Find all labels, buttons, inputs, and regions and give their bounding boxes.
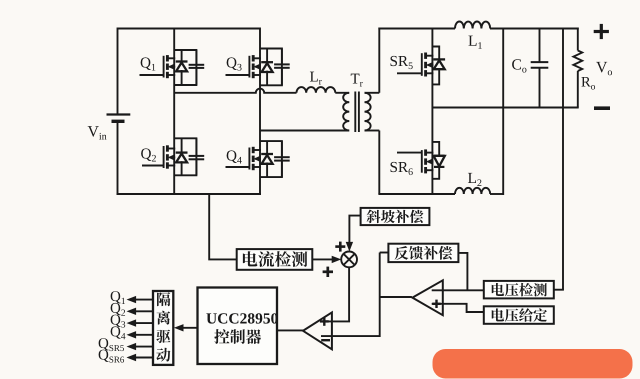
block: voltage reference box bbox=[484, 306, 554, 324]
label plus above summer bbox=[335, 245, 345, 248]
wire: fb comp left link bbox=[380, 252, 389, 254]
wire: sense vertical bbox=[562, 28, 564, 290]
block: UCC28950 box bbox=[198, 288, 278, 365]
wire: SR5 diode loop bbox=[432, 47, 439, 85]
diode D6 (pointing down) bbox=[434, 155, 445, 157]
wire: voltage ref to error amp plus bbox=[432, 304, 484, 312]
label Q2 bbox=[141, 148, 151, 161]
capacitor Co bbox=[539, 28, 541, 63]
wire: voltage det to error amp minus bbox=[432, 289, 484, 291]
label 电流检测 bbox=[243, 251, 257, 266]
wire: L2 right vertical bbox=[502, 28, 504, 196]
diode D4 bbox=[261, 153, 273, 155]
wire: SR6 diode loop bbox=[432, 142, 439, 179]
watermark bar bbox=[433, 349, 633, 379]
label 电压检测 bbox=[492, 283, 504, 296]
label 电压给定 bbox=[492, 308, 504, 321]
wire: Q3 snubber loop bbox=[260, 49, 282, 86]
diode D2 bbox=[176, 151, 188, 153]
wire: drive arrow 3 bbox=[134, 322, 153, 324]
block: feedback compensation box bbox=[388, 244, 458, 262]
label Co bbox=[512, 59, 521, 69]
capacitor C3 bbox=[274, 49, 290, 86]
label L2 bbox=[468, 173, 476, 183]
label L1 bbox=[468, 36, 476, 46]
label Vin bbox=[88, 126, 99, 137]
diode D5 bbox=[433, 58, 445, 60]
wire: leg A (Q1/Q2) bbox=[173, 28, 175, 196]
inductor L2 bbox=[455, 188, 490, 194]
wire: input top rail bbox=[118, 28, 261, 30]
label UCC28950 bbox=[206, 313, 216, 323]
summing junction bbox=[341, 252, 357, 268]
wire: input left rail upper bbox=[117, 28, 119, 114]
wire: secondary bottom rail bbox=[378, 193, 455, 195]
label SR5 bbox=[391, 56, 397, 66]
wire: bridge mid line with crossover hop bbox=[174, 89, 296, 93]
transistor Q2 bbox=[166, 145, 169, 151]
label plus bbox=[594, 30, 609, 33]
label Tr bbox=[351, 74, 360, 84]
transistor Q4 bbox=[252, 147, 255, 153]
battery Vin bbox=[107, 113, 131, 115]
transistor Q3 bbox=[252, 55, 255, 61]
wire: SR leg bbox=[431, 28, 433, 196]
block: current detection box bbox=[237, 249, 313, 270]
wire: comparator output to UCC bbox=[277, 329, 303, 331]
wire: slope comp to summer with arrow bbox=[349, 216, 360, 248]
wire: leg B (Q3/Q4) bbox=[259, 28, 261, 196]
inductor Lr bbox=[297, 87, 336, 93]
label Vo bbox=[596, 62, 607, 73]
block: voltage detection box bbox=[484, 281, 554, 299]
label Q2 out bbox=[111, 303, 121, 315]
wire: secondary left vertical lower bbox=[378, 131, 380, 195]
resistor Ro bbox=[577, 28, 579, 51]
capacitor C1 bbox=[189, 50, 205, 85]
capacitor C2 bbox=[189, 138, 205, 175]
transistor Q1 bbox=[166, 55, 169, 61]
label 斜坡补偿 bbox=[367, 210, 381, 224]
wire: UCC to drive arrow bbox=[179, 327, 198, 329]
capacitor C4 bbox=[274, 141, 290, 177]
wire: drive arrow 2 bbox=[134, 310, 153, 312]
wire: secondary left vertical upper bbox=[378, 28, 380, 93]
label Q4 bbox=[227, 150, 237, 163]
label Q1 out bbox=[111, 291, 121, 303]
wire: drive arrow 5 bbox=[134, 346, 153, 348]
wire: sense into voltage detection bbox=[554, 289, 564, 291]
label plus near summer left bbox=[323, 270, 333, 273]
transformer Tr secondary winding bbox=[365, 93, 371, 131]
wire: drive arrow 4 bbox=[134, 334, 153, 336]
diode D1 bbox=[176, 60, 188, 62]
label SR6 bbox=[391, 162, 397, 172]
wire: Q2 snubber loop bbox=[174, 138, 196, 175]
transformer core bbox=[354, 92, 356, 133]
label Q3 out bbox=[111, 315, 121, 327]
wire: bridge bottom rail bbox=[117, 193, 262, 195]
wire: Q4 snubber loop bbox=[260, 141, 282, 177]
transistor SR5 bbox=[424, 53, 427, 59]
label minus bbox=[594, 106, 610, 110]
error amplifier bbox=[412, 280, 442, 315]
label 隔离驱动 vertical bbox=[157, 292, 170, 306]
transistor SR6 bbox=[424, 149, 427, 155]
wire: Q1 snubber loop bbox=[174, 50, 196, 85]
wire: primary bottom line bbox=[260, 130, 349, 132]
wire: input left rail lower bbox=[117, 123, 119, 194]
label Lr bbox=[310, 72, 318, 82]
wire: drive arrow 1 bbox=[134, 299, 153, 301]
wire: drive arrow 6 bbox=[134, 357, 153, 359]
label QSR5 out bbox=[99, 338, 109, 350]
label Ro bbox=[581, 77, 590, 86]
label 反馈补偿 bbox=[395, 246, 409, 260]
wire: output top rail bbox=[378, 28, 455, 30]
block: slope compensation box bbox=[361, 208, 430, 225]
wire: fb comp right link down bbox=[458, 253, 467, 290]
block: isolation drive box bbox=[153, 291, 173, 365]
wire: current sense tap bbox=[209, 194, 237, 259]
label Q4 out bbox=[111, 326, 121, 338]
wire: output mid rail bbox=[432, 107, 578, 109]
label 控制器 bbox=[214, 329, 229, 344]
transformer Tr primary winding bbox=[343, 93, 349, 131]
label Q3 bbox=[227, 57, 237, 70]
wire: error amp output vertical bbox=[321, 253, 412, 337]
comparator PWM bbox=[303, 312, 332, 349]
wire: current det to summer with arrow bbox=[312, 258, 338, 260]
label QSR6 out bbox=[99, 350, 109, 362]
wire: summer down to comparator bbox=[321, 267, 349, 321]
diode D3 bbox=[261, 61, 273, 63]
label Q1 bbox=[141, 57, 151, 70]
inductor L1 bbox=[455, 22, 490, 29]
